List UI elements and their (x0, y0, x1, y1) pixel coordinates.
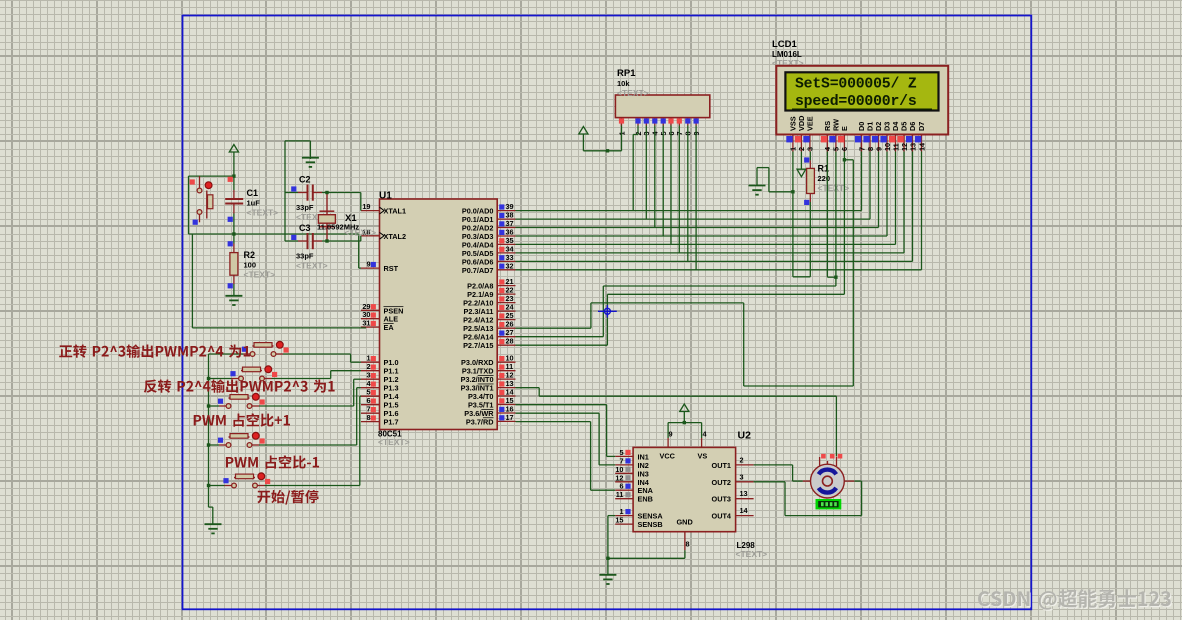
svg-text:15: 15 (615, 516, 623, 525)
wire E jog (843, 152, 854, 162)
svg-text:100: 100 (244, 261, 257, 270)
label pwm+1 (194, 413, 290, 426)
wire SENSA to ground (606, 516, 615, 575)
svg-text:XTAL2: XTAL2 (384, 232, 407, 241)
svg-text:13: 13 (908, 143, 917, 151)
wire P3.7 to ENA (516, 422, 616, 491)
wire RP1 pin9 to P0.7 (695, 126, 697, 270)
LCD1 pin 1 VSS (786, 116, 797, 151)
label reverse (144, 379, 335, 393)
svg-text:<TEXT>: <TEXT> (378, 437, 410, 447)
wire GND pin8 (608, 550, 685, 558)
svg-text:14: 14 (740, 506, 749, 515)
U1 pin 37 P0.2/AD2 (462, 219, 516, 233)
LCD1 pin 11 D4 (889, 121, 900, 152)
RP1 pin 1 (617, 118, 626, 136)
svg-text:XTAL1: XTAL1 (384, 207, 407, 216)
U1 pin 7 P1.6 (361, 405, 399, 419)
U1 pin 32 P0.7/AD7 (462, 261, 516, 275)
ic U1 body 80C51 (380, 199, 498, 430)
wire P0.7 to D7 (516, 152, 922, 270)
U1 pin 33 P0.6/AD6 (462, 253, 516, 267)
power symbol VCC (U2) (680, 404, 689, 423)
label forward (59, 344, 250, 358)
U2 pin 15 SENSB (615, 516, 662, 530)
wire P0.4 to D4 (516, 152, 896, 245)
U1 reference label (379, 191, 392, 202)
U2 pin 9 VCC (660, 430, 676, 461)
U1 pin 10 P3.0/RXD (461, 354, 515, 368)
power symbol VCC (RP1) (579, 127, 588, 151)
label start/pause (257, 490, 318, 505)
C3 labels (296, 223, 328, 271)
U2 pin 3 OUT2 (712, 472, 754, 487)
svg-text:SENSB: SENSB (638, 520, 663, 529)
U1 pin 39 P0.0/AD0 (462, 202, 516, 216)
U1 pin 1 P1.0 (361, 354, 399, 368)
motor speed display (816, 499, 842, 509)
wire P0.2 to D2 (516, 152, 879, 228)
LCD1 pin 6 E (838, 126, 849, 152)
C2 labels (296, 175, 328, 223)
watermark (978, 589, 1172, 611)
capacitor C1 (225, 177, 243, 234)
U2 pin 10 IN3 (615, 465, 649, 479)
U2 pin 1 SENSA (615, 507, 663, 521)
U2 reference label (738, 430, 752, 442)
U1 pin 15 P3.5/T1 (468, 396, 516, 410)
wire P0.3 to D3 (516, 152, 888, 237)
wire P3.3 to encoder (516, 388, 837, 457)
wire reset to RST pin (359, 234, 361, 268)
wire button ground rail (207, 354, 213, 524)
svg-text:C1: C1 (247, 188, 259, 198)
svg-text:OUT2: OUT2 (712, 478, 731, 487)
LCD1 pin 9 D2 (872, 122, 883, 152)
push-button K4 (209, 388, 362, 448)
ground (buttons) (205, 524, 222, 533)
svg-text:<TEXT>: <TEXT> (244, 270, 276, 280)
capacitor C3 (285, 233, 361, 249)
U1 pin 8 P1.7 (361, 413, 399, 427)
wire RP1 pin1 to power (583, 126, 621, 153)
RP1 labels (617, 68, 649, 98)
LCD1 pin 10 D3 (880, 122, 891, 152)
svg-text:P1.7: P1.7 (384, 418, 399, 427)
svg-text:10k: 10k (617, 79, 630, 88)
push-button K3 (209, 379, 362, 408)
RP1 pin 4 (651, 118, 660, 136)
U2 value label L298 (737, 541, 756, 550)
U1 pin 12 P3.2/<tspan style="text-decoration:overline">INT0</tspan> (461, 371, 516, 385)
svg-text:RST: RST (384, 264, 399, 273)
ground (LCD) (749, 168, 793, 195)
LCD1 pin 13 D6 (906, 122, 917, 152)
svg-text:<TEXT>: <TEXT> (617, 88, 649, 98)
svg-text:VEE: VEE (806, 116, 815, 131)
svg-text:32: 32 (506, 261, 514, 270)
svg-text:17: 17 (506, 413, 514, 422)
U1 pin 5 P1.4 (361, 388, 399, 402)
svg-text:220: 220 (818, 174, 831, 183)
svg-text:1uF: 1uF (247, 199, 261, 208)
svg-text:28: 28 (506, 337, 514, 346)
wire RS pin4 down (827, 152, 836, 278)
LCD1 pin 4 RS (821, 121, 832, 152)
U2 pin 12 IN4 (615, 473, 650, 487)
capacitor C2 (285, 185, 361, 201)
RP1 pin 3 (642, 118, 651, 136)
svg-text:<TEXT>: <TEXT> (247, 208, 279, 218)
LCD1 pin 7 D0 (855, 122, 866, 152)
U2 pin 7 IN2 (615, 456, 649, 470)
motor M1 (811, 464, 845, 498)
svg-text:ENB: ENB (638, 495, 653, 504)
U1 pin 13 P3.3/<tspan style="text-decoration:overline">INT1</tspan> (461, 379, 516, 393)
U1 pin 24 P2.3/A11 (463, 303, 515, 317)
LCD1 body (776, 66, 948, 135)
wire to XTAL2 (360, 236, 362, 241)
U1 pin 28 P2.7/A15 (463, 337, 515, 351)
sheet border frame (183, 16, 1032, 610)
svg-text:19: 19 (362, 202, 370, 211)
wire RP1 pin6 to P0.4 (670, 126, 672, 245)
wire button bypass (189, 176, 234, 234)
RP1 pin 7 (675, 118, 684, 136)
U1 pin 3 P1.2 (361, 371, 399, 385)
push-button K2 (209, 366, 362, 381)
U1 value label 80C51 (378, 430, 402, 439)
U1 pin 9 RST (361, 260, 399, 274)
U1 pin 38 P0.1/AD1 (462, 211, 516, 225)
RP1 pin 6 (667, 118, 676, 136)
U1 pin 11 P3.1/TXD (462, 362, 516, 376)
U1 pin 22 P2.1/A9 (467, 286, 515, 300)
U1 pin 27 P2.6/A14 (463, 328, 515, 342)
U1 pin 29 PSEN (361, 302, 403, 316)
U2 property text (736, 549, 768, 559)
X1 labels (317, 213, 376, 238)
svg-text:31: 31 (362, 319, 370, 328)
wire P0.6 to D6 (516, 152, 913, 262)
R2 labels (244, 250, 276, 280)
svg-text:GND: GND (677, 518, 693, 527)
wire OUT2 to motor (754, 481, 862, 515)
wire C2 C3 gnd rail (285, 141, 310, 241)
U2 pin 13 OUT3 (712, 489, 754, 504)
LCD1 pin 14 D7 (915, 122, 926, 152)
wire to XTAL1 (360, 193, 362, 211)
C1 labels (247, 188, 279, 218)
LCD text line2 (795, 94, 917, 110)
svg-text:C2: C2 (299, 175, 311, 185)
RP1 pin 8 (684, 118, 693, 136)
wire P0.1 to D1 (516, 152, 871, 220)
wire RP1 pin3 to P0.1 (645, 126, 647, 220)
wire reset node (189, 232, 359, 235)
svg-text:11: 11 (616, 490, 624, 499)
svg-text:D6: D6 (908, 122, 917, 131)
svg-text:OUT3: OUT3 (712, 495, 731, 504)
svg-text:VS: VS (698, 452, 708, 461)
svg-text:R2: R2 (244, 250, 256, 260)
wire E to P2.7 (516, 160, 845, 345)
wire power to C1 top (232, 174, 235, 199)
svg-text:OUT4: OUT4 (712, 512, 732, 521)
wire P3.6 to IN2 (516, 413, 616, 465)
svg-text:EA: EA (384, 323, 395, 332)
svg-text:8: 8 (366, 413, 370, 422)
svg-text:E: E (840, 126, 849, 131)
svg-text:P0.7/AD7: P0.7/AD7 (462, 266, 494, 275)
svg-text:8: 8 (686, 540, 690, 549)
svg-text:3: 3 (806, 147, 815, 151)
svg-text:9: 9 (668, 430, 672, 439)
RP1 pin 9 (692, 118, 701, 136)
U2 pin 4 VS (698, 430, 708, 461)
svg-text:13: 13 (740, 489, 748, 498)
U1 pin 19 XTAL1 (361, 202, 406, 216)
LCD1 pin 8 D1 (863, 122, 874, 152)
U1 pin 34 P0.5/AD5 (462, 244, 516, 258)
svg-text:U1: U1 (379, 191, 392, 202)
motor stubs (803, 454, 855, 481)
push-button K1 (209, 341, 362, 362)
U1 pin 17 P3.7/<tspan style="text-decoration:overline">RD</tspan> (466, 413, 516, 427)
U1 pin 21 P2.0/A8 (467, 277, 515, 291)
wire VSS to R1 bottom (793, 194, 810, 277)
svg-text:33pF: 33pF (296, 203, 314, 212)
wire P0.0 to D0 (516, 152, 862, 211)
push-button reset (190, 176, 213, 225)
wire RS detour net (516, 160, 854, 386)
U2 pin 6 ENA (615, 482, 653, 496)
svg-text:VCC: VCC (660, 452, 676, 461)
U1 pin 6 P1.5 (361, 396, 399, 410)
power symbol VCC (reset) (229, 145, 238, 177)
ground (U2) (599, 575, 616, 584)
U1 pin 18 XTAL2 (361, 227, 406, 241)
LCD1 pin 5 RW (829, 119, 840, 152)
svg-text:LCD1: LCD1 (772, 39, 798, 50)
U1 pin 35 P0.4/AD4 (462, 236, 516, 250)
U1 pin 23 P2.2/A10 (463, 294, 515, 308)
LCD text line1 (795, 77, 917, 93)
svg-text:3: 3 (740, 472, 744, 481)
svg-text:RP1: RP1 (617, 68, 636, 79)
U1 pin 26 P2.5/A13 (463, 320, 515, 334)
svg-text:OUT1: OUT1 (712, 461, 731, 470)
wire RP1 pin2 to P0.0 (633, 126, 638, 211)
wire P0.5 to D5 (516, 152, 905, 253)
U2 pin 11 ENB (615, 490, 653, 504)
svg-text:2: 2 (740, 455, 744, 464)
resistor pack RP1 body (615, 95, 709, 118)
wire VSS down (791, 152, 794, 277)
resistor R2 (228, 234, 238, 296)
power arrow VDD (797, 152, 806, 177)
ground (R2) (225, 296, 242, 305)
wire RP1 pin4 to P0.2 (654, 126, 656, 228)
wire RW net (516, 152, 838, 337)
wire RP1 pin5 to P0.3 (662, 126, 664, 237)
U1 pin 14 P3.4/T0 (468, 388, 516, 402)
svg-text:C3: C3 (299, 223, 311, 233)
svg-text:9: 9 (366, 260, 370, 269)
U1 pin 36 P0.3/AD3 (462, 228, 516, 242)
LCD1 screen (785, 72, 938, 110)
svg-text:33pF: 33pF (296, 252, 314, 261)
wire RP1 pin7 to P0.5 (678, 126, 680, 253)
RP1 pin 2 (634, 118, 643, 136)
U1 pin 16 P3.6/<tspan style="text-decoration:overline">WR</tspan> (464, 405, 515, 419)
LCD1 pin 12 D5 (897, 122, 908, 152)
wire RP1 pin8 to P0.6 (687, 126, 689, 262)
origin marker (598, 305, 617, 318)
wire reset node to EA (192, 234, 366, 328)
U1 pin 30 ALE (361, 310, 398, 324)
resistor R1 (804, 152, 814, 206)
U2 pin 5 IN1 (615, 448, 649, 462)
svg-text:14: 14 (917, 142, 926, 151)
LCD1 pin 2 VDD (795, 116, 806, 152)
U2 pin 2 OUT1 (712, 455, 754, 470)
svg-text:<TEXT>: <TEXT> (736, 549, 768, 559)
crystal X1 (318, 191, 335, 243)
wire U2 supply (668, 421, 702, 438)
svg-text:U2: U2 (738, 430, 752, 442)
ground (crystal) (302, 158, 319, 167)
svg-text:speed=00000r/s: speed=00000r/s (795, 94, 917, 110)
RP1 pin 5 (659, 118, 668, 136)
svg-text:D7: D7 (917, 122, 926, 131)
svg-text:P2.7/A15: P2.7/A15 (463, 341, 493, 350)
wire P3.5 to IN1 (516, 405, 616, 457)
ic U2 body L298 (633, 447, 736, 531)
label pwm-1 (226, 455, 319, 468)
LCD cursor line (792, 108, 932, 110)
svg-text:6: 6 (840, 147, 849, 151)
push-button K5 (209, 396, 362, 488)
U1 pin 2 P1.1 (361, 362, 399, 376)
U2 pin 8 GND (677, 518, 693, 551)
U1 pin 31 EA (361, 319, 394, 333)
svg-text:SetS=000005/ Z: SetS=000005/ Z (795, 77, 917, 93)
U1 property text (378, 437, 410, 447)
U1 pin 4 P1.3 (361, 379, 399, 393)
wire OUT1 to motor (754, 465, 803, 481)
LCD1 labels (772, 39, 804, 68)
U1 pin 25 P2.4/A12 (463, 311, 515, 325)
U2 pin 14 OUT4 (712, 506, 754, 521)
svg-text:<TEXT>: <TEXT> (296, 261, 328, 271)
LCD1 pin 3 VEE (803, 116, 814, 151)
R1 labels (818, 164, 850, 194)
svg-text:P3.7/RD: P3.7/RD (466, 417, 494, 426)
